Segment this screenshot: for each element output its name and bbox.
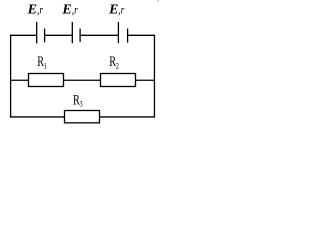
- svg-text:E: E: [27, 2, 37, 17]
- wire: middle branch horizontal (through R1 and R2): [10, 79, 155, 81]
- label cell E3: E ,r: [108, 2, 124, 17]
- resistor R2 body: [101, 74, 136, 87]
- cell E1 short plate: [44, 29, 46, 43]
- wire: top row, corner to cell E1: [10, 34, 37, 36]
- wire: cell E3 to top-right corner: [127, 34, 155, 36]
- label cell E1: E ,r: [27, 2, 44, 17]
- wire: right vertical side: [153, 35, 155, 118]
- svg-text:R2: R2: [109, 53, 119, 70]
- resistor R3 body: [65, 111, 100, 123]
- svg-text:E: E: [108, 2, 118, 17]
- cell E2 long plate: [71, 22, 73, 43]
- cell E2 short plate: [79, 29, 81, 42]
- svg-text:R3: R3: [73, 92, 83, 109]
- cell E3 short plate: [127, 29, 129, 43]
- wire: left vertical side: [10, 35, 12, 118]
- svg-text:R1: R1: [37, 53, 47, 70]
- wire: between cell E1 and cell E2: [44, 34, 72, 36]
- stray dot top right: [158, 0, 159, 1]
- svg-text:,r: ,r: [118, 2, 124, 16]
- wire: between cell E2 and cell E3: [80, 34, 118, 36]
- svg-text:E: E: [61, 2, 71, 17]
- cell E1 long plate: [36, 22, 38, 43]
- svg-text:,r: ,r: [72, 2, 78, 16]
- svg-text:,r: ,r: [37, 2, 43, 16]
- wire: bottom branch horizontal (through R3): [10, 116, 155, 118]
- cell E3 long plate: [117, 22, 119, 43]
- resistor R1 body: [29, 74, 64, 87]
- label cell E2: E ,r: [61, 2, 78, 17]
